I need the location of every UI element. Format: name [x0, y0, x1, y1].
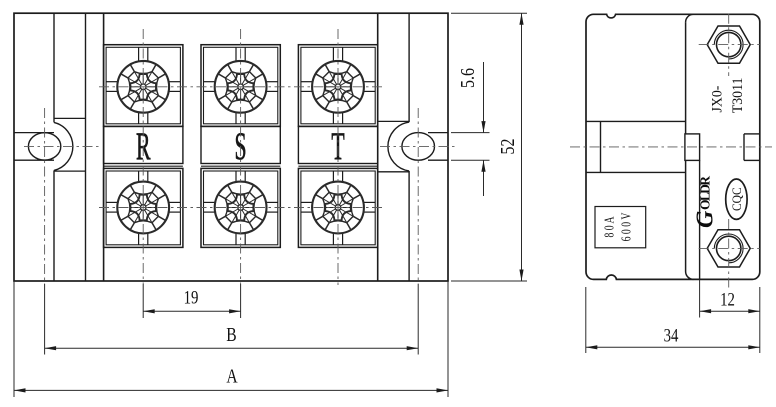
label box lower line R: [104, 165, 183, 167]
center line row 2: [99, 207, 384, 209]
screw slot lines upper R column row 1: [138, 47, 140, 61]
brand logo GOLDR: [693, 176, 719, 228]
wire notch lines T column row 2: [301, 201, 314, 203]
terminal cell inner box T column row 1: [301, 47, 375, 124]
terminal cell inner box T column row 2: [301, 171, 375, 245]
side view body outline: [586, 14, 760, 279]
screw slot lines upper S column row 2: [235, 171, 237, 182]
hex nut bottom center lines: [699, 247, 760, 249]
screw slot lines lower S column row 1: [235, 112, 237, 124]
terminal cell inner box S column row 1: [204, 47, 278, 124]
dim 52 extension bottom: [451, 280, 527, 282]
svg-text:CQC: CQC: [730, 187, 745, 211]
terminal cell outer box S column row 2: [201, 168, 280, 247]
terminal cell outer box R column row 2: [104, 168, 183, 247]
dim 34 extension right: [759, 318, 761, 354]
svg-text:34: 34: [664, 325, 679, 346]
center line column T: [337, 29, 339, 285]
wire notch lines S column row 1: [204, 81, 217, 83]
label box lower line S: [201, 165, 280, 167]
center line left ear horizontal: [24, 145, 100, 147]
svg-text:6 0 0 V: 6 0 0 V: [619, 212, 634, 241]
label box R: [104, 126, 183, 163]
wire notch lines R column row 1: [106, 81, 119, 83]
dim 34 line: [586, 346, 760, 348]
dim 12 line: [700, 310, 760, 312]
screw slot lines lower S column row 2: [235, 233, 237, 245]
svg-text:8 0 A: 8 0 A: [602, 216, 617, 237]
side junction tab: [685, 134, 700, 161]
label box S: [201, 126, 280, 163]
left mounting hole: [28, 133, 60, 160]
center line right hole vertical: [417, 108, 419, 284]
dim 12 extension right: [759, 287, 761, 318]
dim B extension left: [44, 284, 46, 355]
dim 52 extension top: [451, 12, 527, 14]
hex nut bottom: [707, 230, 750, 267]
center line row 1: [99, 86, 384, 88]
screw head R2: [117, 182, 169, 234]
right ear boss bottom line: [378, 171, 409, 173]
screw head S2: [215, 182, 267, 234]
svg-text:12: 12: [720, 289, 735, 310]
label box lower line T: [298, 165, 377, 167]
dim B extension right: [417, 284, 419, 355]
dim 5.6 extension top: [451, 132, 490, 134]
screw head T2: [312, 182, 364, 234]
screw slot lines upper R column row 2: [138, 171, 140, 182]
dim B line: [45, 347, 419, 349]
center line left hole vertical: [44, 108, 46, 284]
dim A extension right: [447, 281, 449, 397]
center line column S: [240, 29, 242, 284]
screw head R1: [117, 61, 169, 113]
label box T: [298, 126, 377, 163]
svg-text:19: 19: [184, 287, 199, 308]
terminal cell outer box R column row 1: [104, 45, 183, 127]
dim A line: [14, 389, 448, 391]
dim 19 extension right: [240, 284, 242, 318]
side body middle band top: [586, 120, 686, 122]
CQC ellipse: [726, 179, 747, 219]
side body left step line: [600, 121, 602, 172]
rating box: [595, 207, 646, 248]
screw slot lines upper S column row 1: [235, 47, 237, 61]
terminal cell outer box S column row 1: [201, 45, 280, 127]
dim 5.6 leader lower: [483, 160, 485, 196]
dim 5.6 extension bottom: [451, 159, 490, 161]
front view body outline: [14, 13, 448, 281]
left ear boss top line: [54, 117, 86, 119]
side right edge notch rect: [744, 133, 760, 135]
wire notch lines S column row 2: [204, 201, 217, 203]
screw slot lines lower R column row 2: [138, 233, 140, 245]
side flange left edge upper: [685, 22, 687, 134]
front body vertical line x54 upper: [53, 13, 55, 122]
screw slot lines lower T column row 2: [332, 233, 334, 245]
center line right ear horizontal: [380, 145, 455, 147]
svg-text:OLDR: OLDR: [698, 176, 713, 210]
center line column R: [142, 29, 144, 284]
front body vertical line x409 lower: [408, 171, 410, 281]
svg-text:5.6: 5.6: [456, 68, 478, 88]
hex nut top: [707, 26, 750, 63]
dim 52 line: [521, 13, 523, 281]
left ear slot top line: [14, 132, 54, 134]
side body middle band bottom: [586, 171, 686, 173]
front body vertical line x85.5: [85, 13, 87, 281]
dim A extension left: [13, 281, 15, 397]
hex nut top vertical center line: [728, 14, 730, 76]
dim 34 extension left: [585, 287, 587, 353]
terminal cell inner box R column row 2: [106, 171, 180, 245]
wire notch lines T column row 1: [301, 81, 314, 83]
dim 19 line: [143, 310, 240, 312]
dim 19 extension left: [142, 284, 144, 318]
terminal cell inner box R column row 1: [106, 47, 180, 124]
screw head T1: [312, 61, 364, 113]
svg-text:JX0-: JX0-: [709, 85, 726, 112]
screw slot lines upper T column row 2: [332, 171, 334, 182]
hex nut top center lines: [699, 44, 760, 46]
left ear slot bottom line: [14, 159, 54, 161]
side view center line: [570, 146, 772, 148]
front body vertical line x409 upper: [408, 13, 410, 122]
screw head S1: [215, 61, 267, 113]
left ear boss arc: [54, 122, 73, 170]
wire notch lines R column row 2: [106, 201, 119, 203]
terminal cell outer box T column row 1: [298, 45, 377, 127]
left ear boss bottom line: [54, 170, 86, 172]
dim 5.6 leader upper: [483, 62, 485, 133]
screw slot lines lower T column row 1: [332, 112, 334, 124]
svg-text:T3011: T3011: [730, 78, 747, 114]
front body vertical line x377.7: [377, 13, 379, 281]
side junction lower line: [699, 160, 701, 279]
screw slot lines upper T column row 1: [332, 47, 334, 61]
screw slot lines lower R column row 1: [138, 112, 140, 124]
dim 12 extension left: [699, 279, 701, 317]
right ear boss arc: [388, 122, 409, 171]
svg-text:52: 52: [496, 139, 518, 155]
svg-text:A: A: [226, 365, 237, 387]
side flange left edge lower: [685, 160, 687, 271]
front body vertical line x103.6: [103, 13, 105, 281]
right mounting hole: [402, 133, 435, 161]
svg-text:B: B: [226, 323, 236, 345]
front body vertical line x54 lower: [53, 170, 55, 281]
right ear slot top line: [428, 132, 448, 134]
terminal cell inner box S column row 2: [204, 171, 278, 245]
hex nut bottom vertical center line: [728, 219, 730, 288]
right ear slot bottom line: [428, 159, 448, 161]
svg-text:G: G: [693, 210, 719, 228]
terminal cell outer box T column row 2: [298, 168, 377, 247]
right ear boss top line: [378, 120, 409, 122]
